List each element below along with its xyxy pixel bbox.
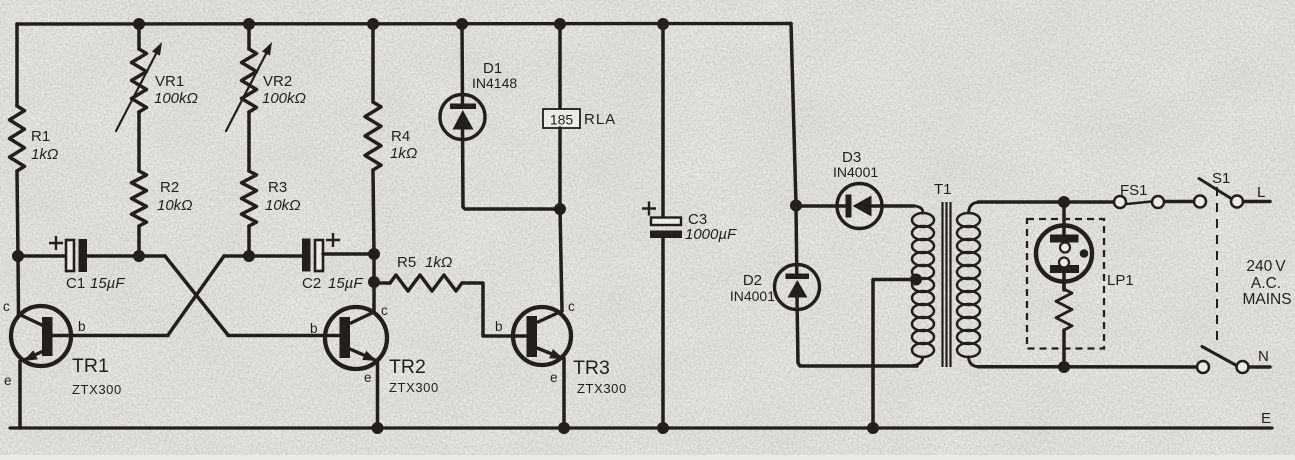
wire R4 top lead (371, 24, 375, 102)
transistor TR3 emitter lead (537, 348, 562, 358)
svg-text:LP1: LP1 (1107, 272, 1134, 289)
svg-text:VR2: VR2 (263, 73, 292, 90)
resistor R5 (390, 275, 462, 291)
node lamp bottom (1058, 361, 1070, 373)
node C1 / R2 (133, 250, 145, 262)
relay coil RLA (543, 109, 580, 128)
svg-text:ZTX300: ZTX300 (577, 381, 627, 396)
wire TR2 base (228, 334, 340, 338)
wire TR1 emitter rail (18, 361, 22, 428)
potentiometer VR2 (242, 49, 257, 112)
wire C2 to TR1 base (diagonal) (168, 256, 224, 335)
node C2 / R3 (243, 250, 255, 262)
switch S1 (neutral pole) (1197, 361, 1209, 373)
wire left rail upper (15, 24, 19, 106)
wire neutral tail (1249, 365, 1270, 369)
svg-text:ZTX300: ZTX300 (389, 380, 439, 395)
svg-text:S1: S1 (1212, 170, 1230, 187)
transistor TR3 collector lead (538, 311, 562, 322)
svg-text:10kΩ: 10kΩ (157, 197, 193, 214)
wire D1 bottom lead (463, 128, 561, 209)
wire D2 bottom lead (797, 296, 917, 366)
svg-text:RLA: RLA (584, 111, 616, 128)
wire TR1 base (53, 334, 168, 338)
node lamp top (1058, 196, 1070, 208)
svg-text:IN4001: IN4001 (730, 288, 775, 304)
svg-text:N: N (1258, 348, 1269, 365)
label C3 polarity + (642, 202, 656, 216)
wire T1 centre tap to bottom bus (873, 280, 916, 429)
svg-text:D2: D2 (743, 272, 762, 289)
svg-text:FS1: FS1 (1120, 182, 1148, 199)
svg-text:15µF: 15µF (328, 275, 363, 292)
svg-text:R1: R1 (31, 128, 50, 145)
wire live tail (1244, 200, 1271, 204)
svg-text:c: c (3, 299, 10, 314)
wire VR2 top lead (247, 24, 251, 49)
transistor TR2 body (325, 307, 387, 369)
node top bus / R4 (367, 18, 379, 30)
svg-text:C1: C1 (66, 275, 85, 292)
wire D3 right lead (872, 204, 914, 208)
wire C1 to TR2 base (diagonal) (165, 256, 228, 335)
wire bottom bus (earth) (10, 426, 1272, 429)
svg-text:100kΩ: 100kΩ (262, 90, 306, 107)
wire C2 right lead (323, 252, 373, 256)
svg-text:100kΩ: 100kΩ (154, 90, 198, 107)
svg-text:TR3: TR3 (573, 357, 610, 379)
potentiometer VR1 (132, 49, 147, 112)
wire lamp top lead (1062, 202, 1066, 245)
node top bus / RLA (554, 18, 566, 30)
svg-text:c: c (381, 303, 388, 318)
wire R2 bottom lead (137, 226, 141, 256)
svg-text:10kΩ: 10kΩ (265, 197, 301, 214)
wire C3 bottom lead (661, 238, 665, 428)
svg-text:240 V: 240 V (1246, 258, 1286, 275)
node top bus / VR1 (133, 18, 145, 30)
wire VR1 top lead (137, 24, 141, 49)
wire R4 rail segment (372, 254, 376, 282)
node TR3 emitter / bottom bus (558, 422, 570, 434)
diode D3 (837, 184, 882, 229)
svg-text:MAINS: MAINS (1242, 291, 1291, 308)
arrow VR1 wiper (116, 50, 158, 131)
wire RLA bottom lead (558, 128, 562, 209)
node top bus / C3 (657, 18, 669, 30)
wire left rail mid (17, 171, 18, 256)
resistor R4 (365, 102, 381, 170)
diode D1 (440, 95, 485, 140)
wire C3 top lead (661, 24, 665, 218)
wire C1 right lead (87, 254, 165, 258)
svg-text:TR2: TR2 (389, 356, 426, 378)
svg-text:VR1: VR1 (155, 73, 184, 90)
svg-text:IN4148: IN4148 (472, 75, 517, 91)
wire C2 left lead (224, 254, 302, 258)
wire TR2 emitter rail (376, 360, 380, 428)
node D3 branch (790, 200, 802, 212)
svg-text:ZTX300: ZTX300 (72, 382, 122, 397)
transistor TR1 collector lead (19, 314, 45, 326)
svg-text:R2: R2 (160, 179, 179, 196)
switch S1 (live pole) (1194, 196, 1206, 208)
wire R4 bottom lead (373, 170, 374, 254)
svg-text:c: c (568, 299, 575, 314)
node RLA / D1 (554, 203, 566, 215)
svg-text:A.C.: A.C. (1251, 275, 1281, 292)
svg-text:e: e (550, 370, 558, 385)
capacitor C2 (302, 239, 311, 272)
node C2 / R4 rail (368, 248, 380, 260)
wire RLA to TR3 collector (560, 209, 562, 311)
switch S1 link (dashed) (1216, 187, 1218, 344)
svg-text:1000µF: 1000µF (685, 226, 737, 243)
wire FS1 to S1 (1165, 200, 1194, 204)
fuse FS1 (1114, 196, 1126, 208)
svg-text:E: E (1261, 410, 1271, 427)
wire D3 left lead (796, 204, 846, 208)
svg-text:1kΩ: 1kΩ (390, 145, 417, 162)
svg-text:b: b (310, 321, 318, 336)
lamp enclosure (dashed) (1027, 219, 1104, 349)
transistor TR3 body (513, 307, 571, 365)
wire left rail to TR1 collector (16, 256, 20, 316)
wire lamp resistor bottom lead (1062, 330, 1066, 367)
transformer T1 primary winding (left) (914, 206, 923, 213)
svg-text:e: e (4, 373, 12, 388)
wire C1 left lead (18, 254, 66, 258)
wire top bus right drop (791, 24, 796, 206)
wire R5 left lead (374, 281, 390, 285)
svg-text:b: b (495, 319, 503, 334)
node top bus / D1 (456, 18, 468, 30)
node C1 left (12, 250, 24, 262)
svg-text:185: 185 (550, 112, 574, 128)
svg-text:b: b (78, 319, 86, 334)
svg-text:15µF: 15µF (90, 275, 125, 292)
node TR2 emitter / bottom bus (372, 422, 384, 434)
node R5 / TR2 collector rail (368, 276, 380, 288)
node C3 / bottom bus (657, 422, 669, 434)
transistor TR2 collector lead (351, 312, 374, 323)
svg-text:e: e (364, 370, 372, 385)
svg-text:R3: R3 (268, 179, 287, 196)
resistor R1 (10, 106, 25, 171)
wire D2 top lead (794, 206, 798, 274)
wire lamp to resistor (1062, 282, 1066, 290)
wire top supply bus (17, 22, 791, 26)
diode D2 (775, 265, 820, 310)
wire TR3 emitter rail (562, 358, 566, 428)
wire VR2-R3 (247, 112, 251, 171)
capacitor C1 (66, 240, 74, 271)
wire lamp bottom electrode lead (1062, 265, 1066, 290)
resistor lamp ballast (1056, 289, 1072, 330)
label C2 polarity + (326, 233, 340, 247)
wire D1 top lead (460, 24, 464, 104)
transformer T1 core (943, 202, 951, 367)
arrow VR2 wiper (226, 50, 268, 131)
node top bus / VR2 (243, 18, 255, 30)
wire R5 to TR3 base (462, 283, 527, 336)
transformer T1 secondary winding (right) (969, 202, 979, 213)
svg-text:1kΩ: 1kΩ (31, 146, 58, 163)
svg-text:R4: R4 (391, 128, 410, 145)
resistor R3 (242, 171, 257, 226)
svg-text:L: L (1257, 184, 1265, 201)
resistor R2 (132, 171, 147, 226)
svg-text:IN4001: IN4001 (833, 164, 878, 180)
wire TR2 collector rail (372, 282, 376, 312)
wire VR1-R2 (137, 112, 141, 171)
label C1 polarity + (49, 236, 63, 250)
transistor TR1 emitter lead (24, 348, 50, 360)
svg-text:T1: T1 (934, 181, 952, 198)
svg-text:R5: R5 (397, 254, 416, 271)
transistor TR1 body (11, 306, 71, 366)
wire T1 to S1 (neutral) (978, 365, 1197, 369)
svg-text:C2: C2 (302, 275, 321, 292)
wire RLA top lead (558, 24, 562, 109)
node tap / bottom bus (867, 422, 879, 434)
node T1 centre tap (910, 274, 922, 286)
svg-text:1kΩ: 1kΩ (425, 254, 452, 271)
svg-text:TR1: TR1 (72, 355, 109, 377)
wire R3 bottom lead (247, 226, 251, 256)
wire T1 to FS1 (live) (978, 200, 1114, 204)
transistor TR2 emitter lead (350, 349, 375, 360)
capacitor C3 (651, 218, 681, 226)
lamp LP1 (1036, 226, 1092, 282)
